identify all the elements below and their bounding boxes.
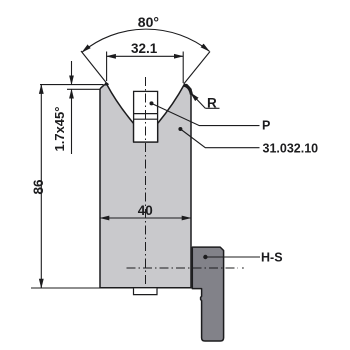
svg-text:40: 40 xyxy=(138,203,153,218)
dimension 32.1 xyxy=(107,52,184,84)
svg-text:1.7x45°: 1.7x45° xyxy=(52,107,67,152)
vertical centerline xyxy=(145,77,147,286)
svg-text:R: R xyxy=(207,95,217,110)
svg-text:P: P xyxy=(262,118,270,132)
bottom tab xyxy=(134,288,158,294)
svg-text:31.032.10: 31.032.10 xyxy=(263,141,319,155)
svg-text:80°: 80° xyxy=(138,14,159,30)
leader P xyxy=(150,101,271,132)
leader 31.032.10 xyxy=(178,127,318,155)
dimension 80 degrees xyxy=(81,29,210,84)
insert P (pressure pad in slot) xyxy=(134,91,158,142)
die body 31.032.10 xyxy=(100,85,191,288)
left shoulder radius mark xyxy=(105,83,108,85)
dimension 1.7x45 chamfer xyxy=(40,61,103,154)
dimension 40 xyxy=(100,217,191,219)
leader H-S xyxy=(203,251,282,265)
horizontal centerline (H-S axis) xyxy=(127,267,239,269)
svg-text:32.1: 32.1 xyxy=(131,41,158,56)
svg-text:86: 86 xyxy=(31,179,46,195)
leader R (shoulder radius) xyxy=(184,85,220,110)
dimension 86 xyxy=(31,85,100,288)
clamp H-S xyxy=(192,247,223,341)
svg-text:H-S: H-S xyxy=(261,251,283,265)
